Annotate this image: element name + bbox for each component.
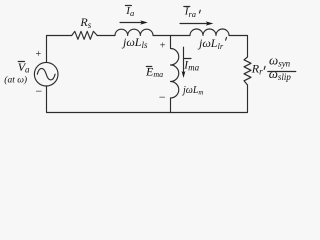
current arrow Ia <box>120 22 142 24</box>
svg-text:Ima: Ima <box>183 59 199 72</box>
overbar Ira <box>184 6 190 8</box>
arrowhead Ima <box>182 71 186 78</box>
sine wave <box>37 68 55 80</box>
arrowhead Ira <box>206 21 214 25</box>
svg-text:Rs: Rs <box>79 15 91 30</box>
overbar Va <box>18 61 24 63</box>
wire Llr to right corner <box>229 36 248 58</box>
fraction bar <box>268 71 296 73</box>
svg-text:+: + <box>159 41 166 52</box>
inductor Lm vertical <box>171 49 179 99</box>
middle branch bottom wire <box>170 98 172 113</box>
svg-text:jωLls: jωLls <box>121 35 148 50</box>
svg-text:−: − <box>35 84 43 98</box>
wire Rs to Lls <box>97 35 115 37</box>
svg-text:Va: Va <box>18 60 30 75</box>
prime of Ira' <box>198 10 201 13</box>
overbar Ema <box>146 66 152 68</box>
overbar Ia <box>125 5 131 7</box>
inductor Lls <box>115 29 153 35</box>
svg-text:jωLm: jωLm <box>181 85 203 97</box>
wire right bottom <box>47 85 248 113</box>
overbar Ima <box>184 58 192 60</box>
inductor Llr' <box>190 29 229 35</box>
svg-text:−: − <box>158 90 166 104</box>
source circle <box>34 62 58 86</box>
wire Lls to Llr <box>153 35 190 37</box>
svg-text:Ema: Ema <box>145 65 163 80</box>
svg-text:+: + <box>35 49 42 60</box>
svg-text:Ia: Ia <box>125 5 134 18</box>
wire top-left segment <box>47 36 72 63</box>
svg-text:(at ω): (at ω) <box>4 74 27 85</box>
middle branch top wire <box>170 36 172 49</box>
resistor Rs <box>72 31 98 39</box>
current arrow Ima <box>183 47 185 74</box>
resistor Rr' vertical <box>244 57 251 85</box>
arrowhead Ia <box>140 20 148 24</box>
svg-text:Rr: Rr <box>251 62 263 77</box>
current arrow Ira' <box>180 23 208 25</box>
svg-text:jωLlr: jωLlr <box>197 36 224 51</box>
svg-text:Ira: Ira <box>184 6 196 19</box>
prime of jwLlr' <box>225 37 228 40</box>
prime of Rr' <box>263 66 266 69</box>
